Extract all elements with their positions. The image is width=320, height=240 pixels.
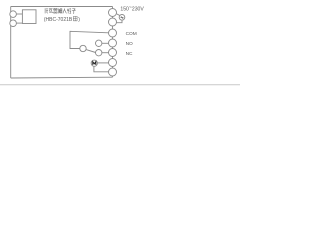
wire left edge of unit outline [10, 7, 12, 79]
terminal 1 power [109, 9, 117, 17]
terminal 5 NC [109, 49, 117, 57]
AC source tilde glyph [121, 17, 124, 18]
relay NC contact [96, 50, 102, 56]
terminal 2 power [109, 18, 117, 26]
wire top edge of unit outline [11, 6, 113, 8]
wire terminal 1 to AC source [116, 14, 120, 16]
svg-text:150~230V: 150~230V [120, 5, 144, 12]
svg-text:(HBC-7021B: (HBC-7021B [44, 17, 73, 23]
relay pivot contact [80, 45, 86, 51]
terminal 6 [109, 59, 117, 67]
relay NO contact [96, 40, 102, 46]
terminal 4 NO [109, 39, 117, 47]
wire sensor terminal 2 to connector box [16, 22, 22, 24]
wire NO contact to terminal 4 [102, 42, 109, 44]
svg-text:): ) [78, 17, 80, 23]
terminal 3 COM [109, 29, 117, 37]
terminal 7 [109, 68, 117, 76]
sensing element symbol [91, 60, 97, 66]
wire bottom edge of unit outline [11, 76, 113, 79]
terminal sensor input 1 [10, 11, 17, 18]
terminal sensor input 2 [10, 20, 17, 27]
svg-text:COM: COM [126, 31, 137, 37]
wire sensor terminal 1 to connector box [16, 13, 22, 15]
wire AC source to terminal 2 [117, 20, 123, 23]
svg-text:NO: NO [126, 41, 133, 47]
label sensor input terminals (CJK smudge line 1) [45, 8, 76, 13]
AC source symbol [119, 14, 125, 20]
svg-text:NC: NC [126, 51, 133, 57]
sensing element M glyph [93, 62, 96, 65]
wire sensing element to terminal 6 [97, 62, 108, 64]
sensor connector box [22, 10, 36, 24]
relay switch arm [86, 50, 96, 53]
CJK smudge yong [73, 16, 77, 20]
page separator rule [0, 84, 240, 86]
wire sensing element to terminal 7 [94, 66, 109, 72]
wire right edge terminal strip [112, 7, 114, 78]
wire COM terminal to relay pivot [70, 31, 109, 48]
wire NC contact to terminal 5 [102, 52, 109, 54]
